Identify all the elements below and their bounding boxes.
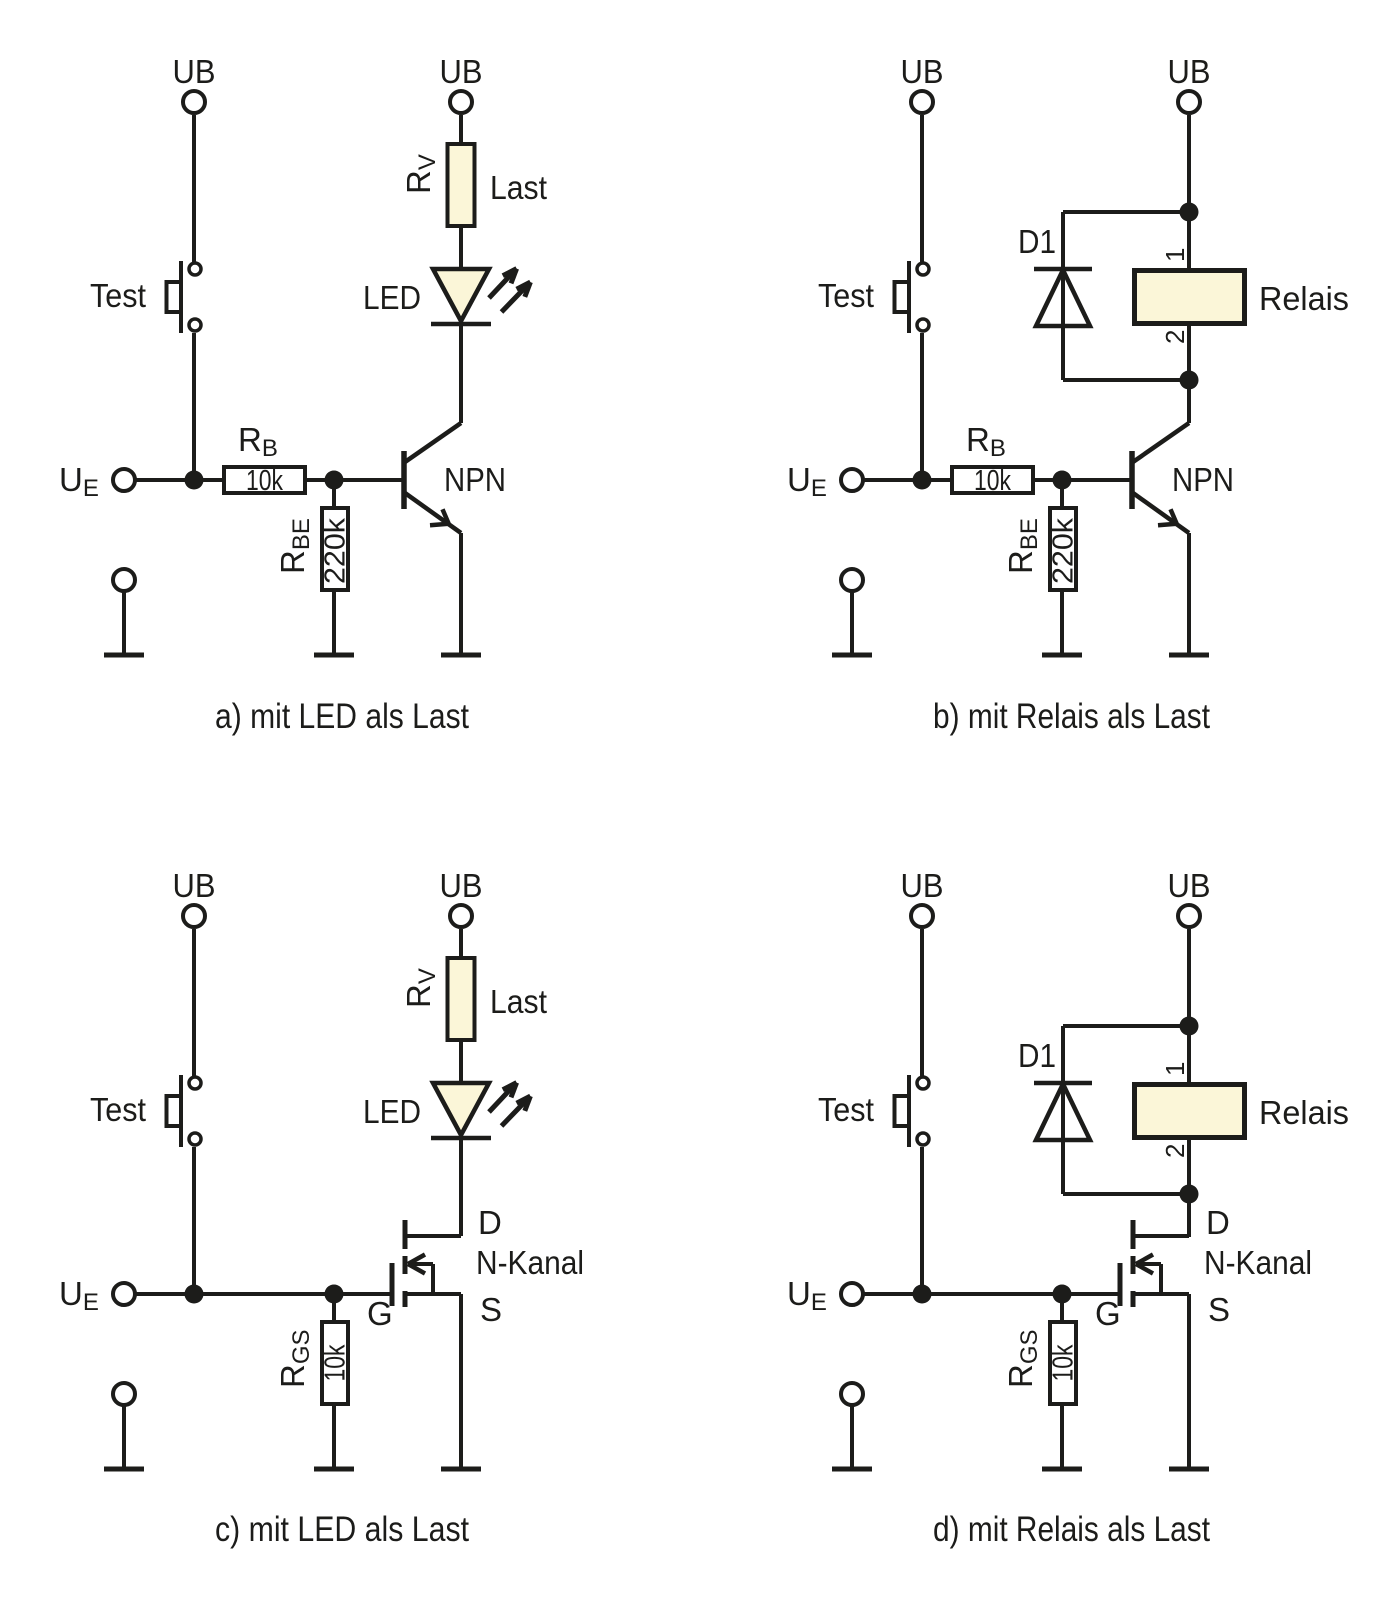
junction node RGS bbox=[325, 1285, 344, 1304]
ground (source) bbox=[1169, 1467, 1209, 1472]
resistor RBE (circuit b) bbox=[1050, 508, 1076, 590]
svg-text:D1: D1 bbox=[1018, 1037, 1056, 1074]
junction node relay pin 2 / diode bbox=[1180, 1185, 1199, 1204]
wire switch to node UE bbox=[920, 1147, 924, 1294]
wire RB to base bbox=[305, 478, 404, 482]
svg-text:10k: 10k bbox=[1048, 1344, 1080, 1381]
wire switch to node UE bbox=[192, 333, 196, 480]
resistor RB (circuit a) bbox=[224, 467, 305, 493]
junction node switch/UE line bbox=[185, 471, 204, 490]
ground (spare terminal) bbox=[104, 653, 144, 658]
ground (RGS) bbox=[1042, 1467, 1082, 1472]
svg-text:10k: 10k bbox=[246, 465, 283, 497]
wire UB to RV bbox=[459, 929, 463, 958]
svg-text:UB: UB bbox=[1168, 53, 1211, 90]
terminal UB (left, circuit a) bbox=[183, 91, 205, 113]
ground (emitter) bbox=[441, 653, 481, 658]
svg-text:b) mit Relais als Last: b) mit Relais als Last bbox=[933, 697, 1210, 736]
ground (RGS) bbox=[314, 1467, 354, 1472]
diode D1 (freewheel, circuit d) bbox=[1034, 1026, 1092, 1194]
svg-text:2: 2 bbox=[1160, 1144, 1190, 1158]
svg-text:Test: Test bbox=[818, 277, 874, 314]
svg-text:220k: 220k bbox=[320, 517, 352, 584]
wire UB to switch bbox=[192, 929, 196, 1076]
svg-text:S: S bbox=[480, 1291, 502, 1328]
svg-text:Test: Test bbox=[90, 1091, 146, 1128]
wire UB to relay bbox=[1187, 929, 1191, 1084]
junction node relay pin 1 / diode bbox=[1180, 1017, 1199, 1036]
transistor Q4 N-channel MOSFET bbox=[1120, 1220, 1189, 1307]
svg-text:1: 1 bbox=[1160, 1062, 1190, 1076]
junction node relay pin 1 / diode bbox=[1180, 203, 1199, 222]
LED light arrow 1 bbox=[489, 1083, 517, 1112]
junction node switch/UE line bbox=[913, 1285, 932, 1304]
wire RB to base bbox=[1033, 478, 1132, 482]
ground (spare terminal) bbox=[832, 1467, 872, 1472]
junction node base/RBE bbox=[1053, 471, 1072, 490]
svg-text:G: G bbox=[1095, 1295, 1121, 1332]
svg-text:UB: UB bbox=[173, 53, 216, 90]
svg-text:UB: UB bbox=[901, 867, 944, 904]
svg-text:UB: UB bbox=[440, 53, 483, 90]
junction node switch/UE line bbox=[913, 471, 932, 490]
wire drain to LED bbox=[459, 1138, 463, 1236]
wire RGS to ground bbox=[332, 1404, 336, 1469]
wire UB to switch bbox=[920, 929, 924, 1076]
spare ground terminal (circuit a) bbox=[113, 569, 135, 655]
svg-text:Last: Last bbox=[490, 983, 547, 1020]
ground (spare terminal) bbox=[104, 1467, 144, 1472]
wire UE to gate bbox=[135, 1292, 392, 1296]
svg-text:G: G bbox=[367, 1295, 393, 1332]
switch Test (push button, circuit a) bbox=[167, 261, 202, 333]
LED (circuit a) bbox=[431, 269, 491, 324]
terminal UE (circuit a) bbox=[113, 469, 135, 491]
svg-text:c) mit LED als Last: c) mit LED als Last bbox=[215, 1510, 469, 1549]
junction node switch/UE line bbox=[185, 1285, 204, 1304]
wire UE to RB bbox=[863, 478, 952, 482]
wire emitter to ground bbox=[1187, 533, 1191, 655]
wire UB to relay bbox=[1187, 115, 1191, 270]
svg-text:10k: 10k bbox=[320, 1344, 352, 1381]
resistor RBE (circuit a) bbox=[322, 508, 348, 590]
resistor RGS (circuit d) bbox=[1050, 1322, 1076, 1404]
wire switch to node UE bbox=[920, 333, 924, 480]
junction node RGS bbox=[1053, 1285, 1072, 1304]
switch Test (push button, circuit c) bbox=[167, 1075, 202, 1147]
wire node to RGS bbox=[1060, 1294, 1064, 1322]
transistor Q2 NPN bbox=[1132, 423, 1189, 533]
terminal UB (left, circuit d) bbox=[911, 905, 933, 927]
svg-text:a) mit LED als Last: a) mit LED als Last bbox=[215, 697, 469, 736]
diode D1 (freewheel, circuit b) bbox=[1034, 212, 1092, 380]
wire junction to diode (top) bbox=[1063, 1024, 1189, 1028]
switch Test (push button, circuit d) bbox=[895, 1075, 930, 1147]
resistor RGS (circuit c) bbox=[322, 1322, 348, 1404]
svg-text:Last: Last bbox=[490, 169, 547, 206]
terminal UE (circuit d) bbox=[841, 1283, 863, 1305]
switch Test (push button, circuit b) bbox=[895, 261, 930, 333]
svg-text:220k: 220k bbox=[1048, 517, 1080, 584]
svg-text:UB: UB bbox=[440, 867, 483, 904]
spare ground terminal (circuit d) bbox=[841, 1383, 863, 1469]
wire diode to junction (bottom) bbox=[1063, 1192, 1189, 1196]
svg-text:10k: 10k bbox=[974, 465, 1011, 497]
wire diode to junction (bottom) bbox=[1063, 378, 1189, 382]
svg-text:NPN: NPN bbox=[1172, 461, 1234, 498]
ground (spare terminal) bbox=[832, 653, 872, 658]
wire junction to diode (top) bbox=[1063, 210, 1189, 214]
terminal UB (right, circuit b) bbox=[1178, 91, 1200, 113]
terminal UE (circuit c) bbox=[113, 1283, 135, 1305]
wire UE to RB bbox=[135, 478, 224, 482]
LED (circuit c) bbox=[431, 1083, 491, 1138]
junction node base/RBE bbox=[325, 471, 344, 490]
spare ground terminal (circuit b) bbox=[841, 569, 863, 655]
wire UB to switch bbox=[192, 115, 196, 262]
LED light arrow 2 bbox=[502, 1096, 531, 1126]
LED light arrow 2 bbox=[502, 282, 531, 312]
wire collector to LED bbox=[459, 324, 463, 423]
transistor Q1 NPN bbox=[404, 423, 461, 533]
terminal UB (left, circuit b) bbox=[911, 91, 933, 113]
svg-text:N-Kanal: N-Kanal bbox=[1204, 1244, 1312, 1281]
svg-text:d) mit Relais als Last: d) mit Relais als Last bbox=[933, 1510, 1210, 1549]
svg-text:UB: UB bbox=[901, 53, 944, 90]
svg-text:NPN: NPN bbox=[444, 461, 506, 498]
svg-text:S: S bbox=[1208, 1291, 1230, 1328]
ground (source) bbox=[441, 1467, 481, 1472]
wire RV to LED bbox=[459, 226, 463, 270]
wire node to RBE bbox=[1060, 480, 1064, 508]
wire UB to RV bbox=[459, 115, 463, 144]
svg-text:Test: Test bbox=[90, 277, 146, 314]
wire RV to LED bbox=[459, 1040, 463, 1084]
svg-text:1: 1 bbox=[1160, 248, 1190, 262]
LED light arrow 1 bbox=[489, 269, 517, 298]
wire RBE to ground bbox=[1060, 590, 1064, 655]
svg-text:Relais: Relais bbox=[1259, 280, 1349, 317]
svg-text:D1: D1 bbox=[1018, 223, 1056, 260]
ground (RBE) bbox=[1042, 653, 1082, 658]
terminal UE (circuit b) bbox=[841, 469, 863, 491]
svg-text:D: D bbox=[1206, 1204, 1230, 1241]
wire switch to node UE bbox=[192, 1147, 196, 1294]
wire UE to gate bbox=[863, 1292, 1120, 1296]
transistor Q3 N-channel MOSFET bbox=[392, 1220, 461, 1307]
svg-text:N-Kanal: N-Kanal bbox=[476, 1244, 584, 1281]
ground (RBE) bbox=[314, 653, 354, 658]
svg-text:UB: UB bbox=[173, 867, 216, 904]
ground (emitter) bbox=[1169, 653, 1209, 658]
resistor RV (load resistor, circuit c) bbox=[448, 958, 475, 1040]
wire RGS to ground bbox=[1060, 1404, 1064, 1469]
wire relay to transistor bbox=[1187, 324, 1191, 423]
relay coil (circuit b) bbox=[1135, 271, 1245, 324]
wire emitter to ground bbox=[459, 533, 463, 655]
terminal UB (left, circuit c) bbox=[183, 905, 205, 927]
resistor RV (load resistor, circuit a) bbox=[448, 144, 475, 226]
svg-text:Relais: Relais bbox=[1259, 1094, 1349, 1131]
wire node to RGS bbox=[332, 1294, 336, 1322]
svg-text:D: D bbox=[478, 1204, 502, 1241]
wire RBE to ground bbox=[332, 590, 336, 655]
svg-text:LED: LED bbox=[363, 279, 421, 316]
terminal UB (right, circuit a) bbox=[450, 91, 472, 113]
spare ground terminal (circuit c) bbox=[113, 1383, 135, 1469]
svg-text:UB: UB bbox=[1168, 867, 1211, 904]
terminal UB (right, circuit d) bbox=[1178, 905, 1200, 927]
wire source to ground bbox=[459, 1294, 463, 1469]
svg-text:LED: LED bbox=[363, 1093, 421, 1130]
wire source to ground bbox=[1187, 1294, 1191, 1469]
wire relay to transistor bbox=[1187, 1138, 1191, 1237]
svg-text:2: 2 bbox=[1160, 330, 1190, 344]
wire UB to switch bbox=[920, 115, 924, 262]
terminal UB (right, circuit c) bbox=[450, 905, 472, 927]
svg-text:Test: Test bbox=[818, 1091, 874, 1128]
resistor RB (circuit b) bbox=[952, 467, 1033, 493]
wire node to RBE bbox=[332, 480, 336, 508]
wire drain to relay bbox=[1187, 1194, 1191, 1236]
junction node relay pin 2 / diode bbox=[1180, 371, 1199, 390]
relay coil (circuit d) bbox=[1135, 1085, 1245, 1138]
